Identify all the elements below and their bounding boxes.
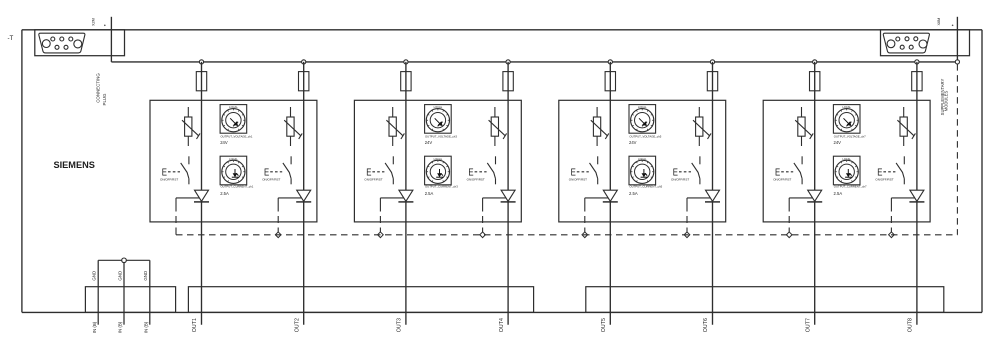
wire varistor R3 bottom lead [392,136,394,146]
potentiometer P4 output current dial box [425,156,452,185]
thyristor V1 triangle [195,190,209,201]
varistor R6 arrow end bar [708,133,712,139]
switch S6 blade [692,163,700,179]
wire varistor R3 top lead [392,107,394,117]
terminal block OUT1-OUT4 box [188,287,533,313]
connector X6 screw hole left [887,40,895,48]
thyristor V4 cathode bar [501,201,516,203]
wire varistor R2 top lead [290,107,292,117]
thyristor V2 cathode bar [296,201,311,203]
wire varistor R4 top lead [494,107,496,117]
node supply bus junction 1 [199,60,203,64]
switch S2 blade [283,163,291,179]
connector X6 pin 7 [909,45,913,49]
wire switch S1 actuator dashed link [168,171,180,173]
wire X6 drop stub [956,17,958,62]
svg-text:OUT4: OUT4 [499,318,505,332]
wire thyristor V6 gate horizontal [687,197,711,199]
svg-text:OUTPUT_CURRENT_ch5: OUTPUT_CURRENT_ch5 [629,185,662,189]
wire X2 drop to supply bus [110,17,112,62]
varistor R8 body [900,117,907,136]
connector X2 pin 2 [60,37,64,41]
thyristor V3 triangle [399,190,413,201]
wire thyristor V1 gate horizontal [176,197,200,199]
node gate bus junction channel 3 [378,232,384,238]
potentiometer P2 output current dial box [220,156,247,185]
wire thyristor V3 gate horizontal [380,197,404,199]
fuse F4 [503,72,513,91]
wire thyristor V2 gate horizontal [278,197,302,199]
thyristor V1 cathode bar [194,201,209,203]
wire frame bottom edge [22,311,982,313]
potentiometer P6 output current dial box [629,156,656,185]
switch S1 blade [181,163,189,179]
svg-text:OUTPUT_VOLTAGE_ch3: OUTPUT_VOLTAGE_ch3 [425,135,457,139]
svg-text:PLUG: PLUG [102,93,107,106]
potentiometer P5 outer ring [631,109,654,132]
potentiometer P3 output voltage dial box [425,105,452,134]
thyristor V7 triangle [808,190,822,201]
wire GND terminal 2 [123,260,125,324]
fuse F6 [707,72,717,91]
svg-text:OUTPUT_VOLTAGE_ch7: OUTPUT_VOLTAGE_ch7 [834,135,866,139]
thyristor V5 triangle [603,190,617,201]
node gate bus junction channel 7 [786,232,792,238]
svg-text:OUT3: OUT3 [397,318,403,332]
svg-text:LOCAL: LOCAL [842,157,851,161]
thyristor V5 cathode bar [603,201,618,203]
node supply bus junction 2 [302,60,306,64]
svg-text:LOCAL: LOCAL [229,157,238,161]
wire switch S2 actuator dashed link [270,171,282,173]
svg-text:LOCAL: LOCAL [638,105,647,109]
svg-text:OUT6: OUT6 [703,318,709,332]
switch S3 fixed contact [392,156,394,164]
wire thyristor V6 gate dashed drop [686,198,688,235]
wire output line OUT3 vertical [405,62,407,325]
connector X2 housing box [35,30,125,56]
node gate bus junction channel 5 [582,232,588,238]
wire varistor R4 bottom lead [494,136,496,146]
varistor R4 arrow end bar [503,133,507,139]
node GND tie junction [122,258,127,263]
potentiometer P7 outer ring [835,109,858,132]
potentiometer P7 knob circle [839,113,854,128]
varistor R1 adjustment arrow [182,120,199,136]
varistor R7 arrow end bar [810,133,814,139]
module A2 enclosure box [354,100,521,222]
svg-text:LOCAL: LOCAL [842,105,851,109]
fuse F1 [196,72,206,91]
potentiometer P6 knob circle [635,164,650,179]
wire output line OUT6 vertical [712,62,714,325]
switch S8 bottom terminal [903,179,905,185]
switch S4 blade [487,163,495,179]
svg-text:2.5A: 2.5A [220,191,229,196]
fuse F3 [401,72,411,91]
switch S4 bottom terminal [495,179,497,185]
svg-text:IN (B): IN (B) [143,321,148,333]
connector X6 screw hole right [919,40,927,48]
switch S1 bottom terminal [188,179,190,185]
node supply bus junction 7 [813,60,817,64]
switch S6 fixed contact [699,156,701,164]
connector X6 housing box [881,30,970,56]
connector X6 pin 3 [914,37,918,41]
svg-text:OUT7: OUT7 [805,318,811,332]
potentiometer P7 scale ticks [836,109,858,130]
svg-text:CONNECTING: CONNECTING [96,73,101,103]
svg-text:ON/OFF/RST: ON/OFF/RST [262,177,280,181]
varistor R6 adjustment arrow [693,120,710,136]
svg-text:GND: GND [92,271,97,281]
wire output line OUT4 vertical [507,62,509,325]
thyristor V2 triangle [297,190,311,201]
svg-text:OUT5: OUT5 [601,318,607,332]
fuse F7 [810,72,820,91]
svg-text:GND: GND [117,271,122,281]
wire thyristor V1 gate dashed drop [175,198,177,235]
svg-text:ON/OFF/RST: ON/OFF/RST [569,177,587,181]
wire 24V supply bus [111,61,957,63]
terminal block IN box [85,287,175,313]
svg-text:24V: 24V [220,140,228,145]
module A1 enclosure box [150,100,317,222]
wire varistor R6 bottom lead [698,136,700,146]
wire varistor R7 top lead [801,107,803,117]
potentiometer P6 scale ticks [631,161,654,182]
svg-text:MODULES: MODULES [944,90,949,111]
fuse F5 [605,72,615,91]
potentiometer P8 pointer arrow [845,169,852,177]
switch S7 bottom terminal [801,179,803,185]
potentiometer P8 output current dial box [833,156,860,185]
potentiometer P7 pointer arrow [844,118,852,126]
svg-text:OUT8: OUT8 [908,318,914,332]
wire output line OUT7 vertical [814,62,816,325]
switch S4 fixed contact [495,156,497,164]
wire varistor R5 top lead [596,107,598,117]
wire switch S5 actuator dashed link [577,171,589,173]
svg-text:X2M: X2M [92,18,96,26]
switch S3 blade [385,163,393,179]
connector X2 screw hole left [42,40,50,48]
switch S8 blade [896,163,904,179]
connector X6 pin 1 [896,37,900,41]
potentiometer P4 knob circle [430,164,445,179]
potentiometer P8 outer ring [835,160,858,183]
varistor R7 body [798,117,805,136]
connector X2 D-sub face [39,33,85,53]
potentiometer P5 knob circle [635,113,650,128]
wire frame left edge [21,30,23,313]
connector X2 pin 6 [55,45,59,49]
potentiometer P1 knob circle [226,113,241,128]
potentiometer P3 scale ticks [427,109,449,130]
wire supplementary-modules dashed drop [956,64,958,235]
potentiometer P8 knob circle [839,164,854,179]
node supply bus junction 6 [710,60,714,64]
potentiometer P4 outer ring [426,160,449,183]
wire switch S7 actuator dashed link [781,171,793,173]
node supply bus junction 5 [608,60,612,64]
potentiometer P1 outer ring [222,109,245,132]
wire GND tie bar [98,259,150,261]
svg-text:ON/OFF/RST: ON/OFF/RST [160,177,178,181]
wire thyristor V7 gate dashed drop [788,198,790,235]
svg-text:IN (B): IN (B) [92,321,97,333]
potentiometer P5 pointer arrow [639,118,647,126]
wire thyristor V8 gate dashed drop [890,198,892,235]
module A3 enclosure box [559,100,726,222]
svg-text:X6M: X6M [937,18,941,26]
switch S5 blade [590,163,598,179]
terminal block OUT5-OUT8 box [586,287,944,313]
thyristor V6 triangle [706,190,720,201]
svg-text:OUTPUT_CURRENT_ch1: OUTPUT_CURRENT_ch1 [221,185,254,189]
thyristor V6 cathode bar [705,201,720,203]
svg-text:ON/OFF/RST: ON/OFF/RST [467,177,485,181]
switch S3 bottom terminal [392,179,394,185]
svg-text:OUT1: OUT1 [192,318,198,332]
varistor R1 arrow end bar [197,133,201,139]
wire switch S3 actuator dashed link [372,171,384,173]
wire thyristor V8 gate horizontal [891,197,915,199]
svg-text:GND: GND [143,271,148,281]
wire GND terminal 3 [149,260,151,324]
wire output line OUT8 vertical [916,62,918,325]
varistor R6 body [696,117,703,136]
thyristor V4 triangle [501,190,515,201]
wire thyristor V5 gate horizontal [585,197,609,199]
varistor R7 adjustment arrow [795,120,812,136]
fuse F2 [299,72,309,91]
varistor R3 arrow end bar [401,133,405,139]
connector X6 pin 6 [900,45,904,49]
thyristor V3 cathode bar [398,201,413,203]
wire varistor R8 bottom lead [903,136,905,146]
wire switch S8 actuator dashed link [883,171,895,173]
wire output line OUT5 vertical [609,62,611,325]
thyristor V8 cathode bar [909,201,924,203]
potentiometer P2 scale ticks [222,161,244,182]
varistor R2 arrow end bar [299,133,303,139]
node gate bus junction channel 4 [480,232,486,238]
svg-text:OUTPUT_CURRENT_ch3: OUTPUT_CURRENT_ch3 [425,185,458,189]
wire varistor R2 bottom lead [290,136,292,146]
switch S5 bottom terminal [597,179,599,185]
svg-text:ON/OFF/RST: ON/OFF/RST [875,177,893,181]
potentiometer P6 outer ring [631,160,654,183]
node gate bus junction channel 6 [684,232,690,238]
svg-text:2.5A: 2.5A [425,191,434,196]
svg-text:-T: -T [8,35,14,42]
switch S2 bottom terminal [290,179,292,185]
switch S2 fixed contact [290,156,292,164]
potentiometer P1 output voltage dial box [220,105,247,134]
wire thyristor V5 gate dashed drop [584,198,586,235]
svg-text:ON/OFF/RST: ON/OFF/RST [773,177,791,181]
svg-text:ON/OFF/RST: ON/OFF/RST [671,177,689,181]
varistor R1 body [185,117,192,136]
switch S6 bottom terminal [699,179,701,185]
varistor R3 adjustment arrow [386,120,403,136]
thyristor V7 cathode bar [807,201,822,203]
connector X2 pin 3 [69,37,73,41]
svg-text:OUT2: OUT2 [294,318,300,332]
switch S5 fixed contact [597,156,599,164]
connector X6 D-sub face [883,33,929,53]
wire varistor R1 top lead [187,107,189,117]
potentiometer P2 knob circle [226,164,241,179]
wire switch S4 actuator dashed link [475,171,487,173]
svg-text:24V: 24V [834,140,842,145]
svg-text:24V: 24V [629,140,637,145]
varistor R2 adjustment arrow [284,120,301,136]
svg-text:LOCAL: LOCAL [638,157,647,161]
wire output line OUT1 vertical [201,62,203,325]
switch S1 fixed contact [188,156,190,164]
wire varistor R7 bottom lead [801,136,803,146]
switch S7 fixed contact [801,156,803,164]
wire thyristor V4 gate dashed drop [482,198,484,235]
switch S7 blade [794,163,802,179]
potentiometer P6 pointer arrow [641,169,648,177]
wire thyristor V2 gate dashed drop [277,198,279,235]
connector X2 pin 1 [51,37,55,41]
varistor R3 body [389,117,396,136]
potentiometer P5 output voltage dial box [629,105,656,134]
module A4 enclosure box [763,100,930,222]
wire varistor R6 top lead [698,107,700,117]
svg-text:LOCAL: LOCAL [229,105,238,109]
wire thyristor V4 gate horizontal [483,197,507,199]
wire gate control dashed bus [176,234,957,236]
varistor R8 adjustment arrow [897,120,914,136]
potentiometer P1 pointer arrow [230,118,238,126]
node supply bus junction for supplementary modules [955,60,959,64]
fuse F8 [912,72,922,91]
varistor R2 body [287,117,294,136]
svg-text:OUTPUT_CURRENT_ch7: OUTPUT_CURRENT_ch7 [834,185,867,189]
svg-text:OUTPUT_VOLTAGE_ch1: OUTPUT_VOLTAGE_ch1 [221,135,253,139]
wire frame right edge [981,30,983,313]
wire switch S6 actuator dashed link [679,171,691,173]
potentiometer P5 scale ticks [631,109,654,130]
wire output line OUT2 vertical [303,62,305,325]
varistor R8 arrow end bar [912,133,916,139]
potentiometer P7 output voltage dial box [833,105,860,134]
svg-text:24V: 24V [425,140,433,145]
wire thyristor V7 gate horizontal [789,197,813,199]
connector X6 pin 2 [905,37,909,41]
wire thyristor V3 gate dashed drop [379,198,381,235]
node supply bus junction 4 [506,60,510,64]
varistor R5 arrow end bar [605,133,609,139]
connector X2 screw hole right [74,40,82,48]
connector X2 pin 7 [64,45,68,49]
varistor R4 adjustment arrow [489,120,506,136]
node supply bus junction 8 [915,60,919,64]
node gate bus junction channel 2 [275,232,281,238]
svg-text:LOCAL: LOCAL [434,157,443,161]
potentiometer P8 scale ticks [836,161,858,182]
svg-text:LOCAL: LOCAL [434,105,443,109]
potentiometer P4 pointer arrow [436,169,443,177]
node supply bus junction 3 [404,60,408,64]
potentiometer P3 pointer arrow [435,118,443,126]
wire varistor R5 bottom lead [596,136,598,146]
varistor R4 body [491,117,498,136]
potentiometer P2 outer ring [222,160,245,183]
node gate bus junction channel 8 [889,232,895,238]
svg-text:SIEMENS: SIEMENS [54,160,95,170]
varistor R5 adjustment arrow [591,120,608,136]
svg-text:2.5A: 2.5A [834,191,843,196]
wire frame top edge [22,29,982,31]
svg-text:IN (B): IN (B) [118,321,123,333]
thyristor V8 triangle [910,190,924,201]
potentiometer P3 knob circle [430,113,445,128]
wire varistor R8 top lead [903,107,905,117]
svg-text:2.5A: 2.5A [629,191,638,196]
potentiometer P4 scale ticks [427,161,449,182]
potentiometer P2 pointer arrow [232,169,239,177]
varistor R5 body [593,117,600,136]
switch S8 fixed contact [903,156,905,164]
wire varistor R1 bottom lead [187,136,189,146]
node dot near X2M label [104,25,106,27]
potentiometer P3 outer ring [426,109,449,132]
svg-text:OUTPUT_VOLTAGE_ch5: OUTPUT_VOLTAGE_ch5 [629,135,661,139]
node dot near X6M label [952,25,954,27]
wire GND terminal 1 [97,260,99,324]
svg-text:ON/OFF/RST: ON/OFF/RST [364,177,382,181]
potentiometer P1 scale ticks [222,109,244,130]
